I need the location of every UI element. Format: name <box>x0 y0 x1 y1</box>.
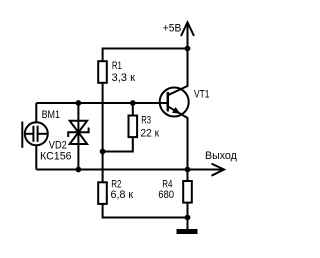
wire top rail <box>103 49 188 61</box>
svg-text:BM1: BM1 <box>42 109 60 121</box>
svg-text:КС156: КС156 <box>40 151 72 163</box>
svg-text:3,3 к: 3,3 к <box>112 72 136 84</box>
node ground junction <box>185 215 191 221</box>
resistor R1 <box>98 61 107 83</box>
svg-text:+5В: +5В <box>163 23 182 35</box>
node output junction <box>185 167 191 173</box>
resistor R2 <box>98 182 187 217</box>
node zener top <box>76 100 82 106</box>
wire base rail <box>36 102 168 104</box>
node collector junction <box>185 46 191 52</box>
node zener bottom <box>76 167 82 173</box>
zener diode VD2 <box>68 103 88 170</box>
microphone BM1 <box>22 103 48 170</box>
output arrow <box>188 164 225 176</box>
svg-text:Выход: Выход <box>205 150 237 162</box>
power +5V arrow <box>181 22 194 48</box>
wire emitter rail <box>36 169 187 171</box>
transistor VT1 <box>160 49 189 170</box>
ground <box>177 218 198 235</box>
svg-text:VT1: VT1 <box>194 88 210 100</box>
wire R1 bottom to R2 top <box>102 84 104 183</box>
node R1/R3/R2 junction <box>100 149 106 155</box>
svg-text:6,8 к: 6,8 к <box>111 189 134 201</box>
svg-text:680: 680 <box>158 189 174 201</box>
svg-text:22 к: 22 к <box>141 127 160 139</box>
svg-text:R1: R1 <box>112 60 122 72</box>
node R3 top <box>130 100 136 106</box>
svg-text:R3: R3 <box>141 115 151 127</box>
resistor R4 <box>183 170 192 218</box>
resistor R3 <box>103 103 138 152</box>
